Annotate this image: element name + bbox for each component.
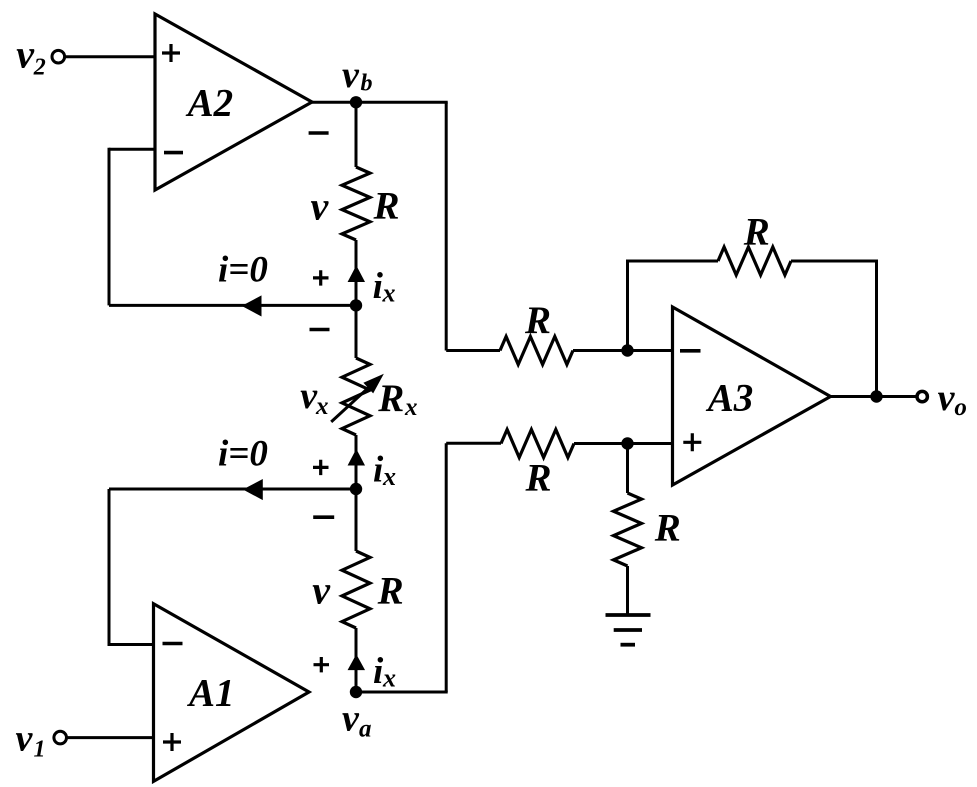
minus sign polarity below node ix2 [313,515,334,519]
wire va to right [356,691,448,694]
minus sign A2 - input [164,151,183,155]
wire vb branch vertical down (x=446) [445,102,448,350]
svg-text:R: R [373,185,400,228]
minus sign A1 - input [163,642,183,646]
minus sign polarity top of R chain [309,131,329,135]
wire Rx to node ix2 [355,435,358,489]
wire A1 feedback vertical [108,489,111,646]
current arrow ix3 (up) [348,655,364,669]
wire R2 to node va [355,628,358,692]
wire vb to right [356,101,448,104]
terminal vo [917,391,927,401]
ground [606,613,651,617]
svg-text:x: x [382,462,396,491]
svg-text:R: R [743,211,770,254]
arrow through Rx [331,385,371,422]
arrowhead i=0 lower (left) [244,480,262,500]
svg-text:b: b [361,71,373,97]
svg-text:x: x [382,279,396,308]
arrowhead i=0 upper (left) [243,296,261,316]
svg-text:R: R [654,507,681,550]
node vb [350,96,362,108]
wire R3 to node n1 [573,349,628,352]
wire feedback top right segment [791,260,878,263]
plus sign polarity above node va [314,657,330,672]
op-amp A1 [154,604,310,782]
wire n2 down to R6 [626,444,629,494]
node junction ix2 [350,483,362,495]
current arrow ix2 (up) [348,450,364,465]
svg-text:A1: A1 [186,671,235,714]
wire to R3 [446,349,500,352]
svg-text:v: v [16,32,35,77]
op-amp A3 [673,307,831,485]
svg-text:2: 2 [33,54,46,80]
wire feedback horizontal to node ix2 [109,488,356,491]
wire n2 to A3 + input [628,442,673,445]
node output [870,390,882,402]
variable resistor Rx [342,358,370,435]
wire A2 feedback stub into - input [109,148,155,151]
wire vb down to R1 [355,102,358,167]
svg-text:A3: A3 [705,376,754,419]
terminal v2 [52,50,65,63]
svg-text:A2: A2 [185,81,234,124]
svg-text:x: x [404,394,418,421]
node n1 (A3 - input) [621,344,633,356]
wire node ix1 down to Rx [355,305,358,358]
plus sign A2 + input [162,44,180,62]
svg-text:R: R [377,377,404,420]
resistor R1 [342,167,370,240]
op-amp A2 [155,14,312,190]
svg-text:v: v [938,377,956,419]
wire feedback down to output node [875,261,878,397]
wire feedback top left segment [626,260,718,263]
wire va branch vertical up (x=446) [445,443,448,692]
svg-text:v: v [311,184,330,229]
minus sign A3 - input [680,349,701,353]
svg-text:R: R [524,299,551,342]
svg-text:1: 1 [34,736,46,762]
svg-text:i=0: i=0 [218,250,268,291]
plus sign polarity above node ix2 [313,460,329,475]
svg-text:o: o [954,394,967,421]
svg-text:i=0: i=0 [218,434,268,475]
terminal v1 [54,731,67,744]
svg-text:v: v [342,54,360,96]
wire n1 to A3 - input [628,349,673,352]
minus sign polarity below node ix1 [310,328,330,332]
svg-text:v: v [342,697,360,739]
wire feedback horizontal to node ix1 [109,304,356,307]
wire to R4 [446,442,501,445]
wire R4 to node n2 [574,442,628,445]
svg-text:x: x [382,664,396,693]
svg-text:R: R [525,457,552,500]
wire node ix2 down to R2 [355,489,358,551]
wire R6 to ground [626,566,629,615]
wire A1 feedback stub into - input [109,643,154,646]
wire R1 to node ix1 [355,240,358,305]
resistor R5 (feedback) [718,247,791,275]
node junction va [350,686,362,698]
resistor R2 [342,551,370,628]
resistor R3 (to A3 - input) [500,337,573,365]
node junction ix1 [350,299,362,311]
svg-text:R: R [377,570,404,613]
wire A2 output to node vb [312,101,356,104]
wire v1 to A1 + input [67,736,154,739]
svg-text:x: x [315,393,329,420]
current arrow ix1 (up) [348,267,364,282]
svg-text:v: v [312,568,331,613]
wire v2 to A2 + input [65,55,155,58]
svg-text:v: v [16,718,34,760]
wire A3 output [831,395,917,398]
plus sign A3 + input [683,433,701,451]
plus sign polarity above node ix1 [313,270,329,285]
resistor R4 (to A3 + input) [501,430,574,458]
plus sign A1 + input [163,733,181,751]
wire A2 feedback vertical [108,148,111,306]
node n2 (A3 + input) [621,437,633,449]
wire feedback up from n1 [626,261,629,351]
svg-text:a: a [359,715,372,742]
resistor R6 (to ground) [614,493,642,566]
